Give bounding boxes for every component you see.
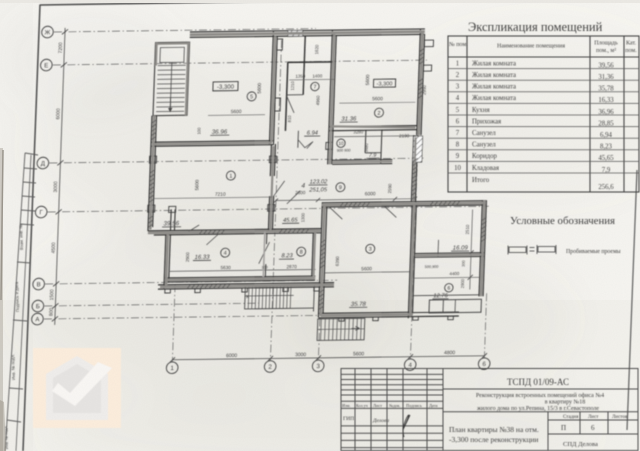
kitchen-room1 wall line2 [151,145,274,147]
dim tick [52,316,58,321]
wall hatch [320,289,325,292]
stair tread [157,78,185,80]
upper right wall inner [421,34,425,135]
entrance tread [332,319,335,341]
wall core [190,32,425,35]
room 8 number [297,247,306,256]
stair K tread [258,286,261,309]
tick [393,197,397,201]
room3 left wall inner [323,206,327,313]
stair tread [157,96,185,98]
rooms48 dim line [169,269,316,271]
wall hatch [420,57,425,60]
axis 6 line [484,293,486,358]
stairs K outline [245,285,315,308]
stairwell walls [153,42,190,115]
dim tick [316,355,321,360]
stair tread [157,92,185,94]
room 10 number [337,139,346,148]
kitchen-room1 wall line1 [151,141,274,143]
entrance tread [356,318,359,340]
room10 dim line [334,136,416,137]
room7 shaft line [303,36,305,95]
room1-corridor wall outer upper [270,144,271,176]
stair tread [158,64,186,66]
wall hatch [413,175,418,178]
south wall pilaster [242,288,248,292]
wall hatch [418,95,423,98]
entrance zigzag [298,140,313,149]
corridor dim line [276,199,415,201]
kitchen dim line [208,114,265,117]
stair K tread [268,286,271,309]
wall core [156,42,190,44]
south wall pilaster [195,289,201,293]
door swing room4 [206,234,218,245]
wall hatch [279,230,282,234]
room2 dim line [339,101,415,104]
wall core [322,203,486,205]
room 5 number [247,92,256,101]
wall core [332,161,392,164]
dim tick [56,209,62,214]
underline 8.23 [279,258,294,260]
wall hatch [321,239,326,242]
room8 right wall [312,233,314,277]
pilaster right2 [423,65,431,71]
porch divider [442,300,444,313]
wall core [166,234,168,286]
label -3,300 kitchen [213,82,238,91]
wall core [270,146,273,230]
wall hatch [152,128,157,131]
wall hatch [413,167,418,170]
wall hatch [305,229,308,233]
room7 inner line [287,94,304,96]
wall hatch [321,256,326,259]
wall hatch [412,192,417,195]
room4-8 partition lower [264,264,266,277]
room 7 number [311,82,320,91]
wall hatch [349,203,352,207]
wall hatch [434,202,437,206]
room3 bottom wall line2 [318,316,459,318]
wall hatch [419,78,424,81]
wall hatch [452,201,455,205]
room1-corridor wall inner lower [272,196,273,232]
wall hatch [413,171,418,174]
wall hatch [321,248,326,251]
wall hatch [208,230,211,234]
wall hatch [212,230,215,234]
room7 door swing [286,96,295,113]
room7 left partition [285,62,287,131]
wall hatch [222,284,225,288]
stair arrow head [168,108,173,113]
vert dim line right section [470,209,473,289]
stair K side [312,308,314,311]
south outer wall line1 [158,283,334,285]
wall hatch [216,230,219,234]
wall core [321,204,325,315]
room3 left wall outer [318,202,322,317]
right outer wall line2 [483,200,486,296]
wall hatch [203,231,206,235]
wall hatch [150,174,155,177]
room1 bottom wall line1 [148,229,321,231]
underline 45.65 [282,222,299,224]
underline 36.96 [210,134,229,136]
wall hatch [150,182,155,185]
wall core [148,231,321,233]
stair K tread [279,286,282,309]
wall core [413,137,415,201]
wall hatch [152,120,157,123]
dim line 4400 [414,276,479,279]
wall hatch [413,162,418,165]
wall hatch [283,229,286,233]
bottom wall pilaster [448,316,454,320]
stair tread [156,110,184,112]
wall hatch [412,196,417,199]
wall core [331,125,416,128]
wall hatch [481,238,486,241]
bottom wall pilaster [413,317,419,321]
wall hatch [419,82,424,85]
room3 dim line [324,272,409,273]
wall hatch [187,285,190,289]
south wall pilaster [314,287,320,291]
tick [274,198,278,202]
wall core [263,232,265,278]
block48 bottom wall line2 [164,280,315,282]
underline 35.78 [349,306,367,308]
room10 bottom wall line1 [332,159,392,162]
wall core [155,43,158,66]
wall tie at axis Г [148,205,155,212]
axis 2 line [270,40,281,361]
entrance tread [348,319,351,341]
stair tread [156,101,184,103]
stair K tread [272,286,275,309]
room1 bottom wall line2 [154,233,321,235]
entrance tread [352,318,355,340]
entrance tread [328,319,331,341]
room7 top partition [288,61,334,64]
underline 16.33 [193,259,211,261]
stair tread [157,87,185,89]
room3 bottom wall line1 [319,312,414,313]
wall tie room10 left [326,142,333,149]
axis Е line [53,60,427,65]
wall hatch [199,231,202,235]
wall hatch [151,136,156,139]
axis 4 line [410,38,421,359]
wall core [314,230,316,276]
room10 niche top [365,152,381,154]
entrance stairs [317,318,365,340]
wall hatch [420,48,425,51]
axis Ж circle [41,26,53,38]
wall core [419,31,423,135]
room10 partition B [381,130,382,164]
label 123,02/251,05 [301,179,328,193]
axis Д circle [37,157,49,169]
underline 16.09 [451,250,469,252]
axis Г line [48,206,489,212]
room10 left wall outer [328,130,329,164]
dim tick [268,356,273,361]
wall core [160,285,334,287]
right wall mid outer [411,135,413,201]
tick [316,198,320,202]
tick [468,275,473,280]
wall core [186,42,189,115]
hatched wall pier [413,136,423,162]
wall hatch [209,284,212,288]
wall hatch [191,285,194,289]
wall hatch [418,91,423,94]
wall hatch [292,229,295,233]
stair K tread [247,286,250,309]
wall hatch [419,87,424,90]
stair K tread [275,286,278,309]
bottom wall pilaster [373,317,379,321]
south wall pilaster [283,287,289,291]
stair stringer [170,62,172,111]
wall hatch [150,191,155,194]
wall hatch [149,199,154,202]
wall hatch [218,284,221,288]
wall hatch [357,203,360,207]
wall hatch [321,252,326,255]
stair tread [156,106,184,108]
stair tread [158,69,186,71]
wall hatch [420,52,425,55]
wall hatch [456,201,459,205]
wall hatch [482,226,487,229]
label -3,300 room2 [373,79,395,88]
axis Е circle [40,59,52,71]
room3 door swing [384,206,396,217]
axis 6 circle [478,358,490,370]
stair K tread [254,286,257,309]
right outer wall line1 [479,200,482,296]
wall hatch [149,216,154,219]
wall core [166,278,315,280]
block48 left wall inner [169,234,171,282]
39.56 step wall line2 [173,209,176,230]
room 1 number [226,171,235,180]
underline 7.9 [366,157,379,159]
top wall outer line [190,29,425,32]
wall hatch [319,298,324,301]
axis 1 circle [166,362,178,374]
wall hatch [227,284,230,288]
room10 left wall inner [332,130,333,164]
room7-room2 wall inner [333,35,336,130]
dim tick [62,29,68,34]
wall hatch [196,285,199,289]
room10 bottom wall line2 [332,163,392,166]
stair K tread [282,286,285,309]
axis 2 circle [264,361,276,373]
entrance stairs rail [317,328,364,331]
axis 3 circle [312,360,324,372]
wall hatch [150,170,155,173]
stair K tread [261,286,264,309]
wall core [481,200,484,296]
right wall mid inner [415,135,417,201]
room10 partition A [364,130,367,153]
room3 top wall line1 [322,201,486,203]
dim tick [170,357,175,362]
wall hatch [301,229,304,233]
wall hatch [200,285,203,289]
room7-room2 wall outer [329,30,333,130]
axis В line [45,280,337,284]
left wall outer [148,116,152,231]
wall core [153,143,272,145]
left dimension line [55,28,65,325]
wall core [321,314,413,315]
entrance tread [336,319,339,341]
wall hatch [447,202,450,206]
axis Д line [49,158,423,163]
wall hatch [413,158,418,161]
kitchen right wall outer [269,31,273,144]
dim tick [61,62,67,67]
stair K tread [251,286,254,309]
lobby line [297,131,300,148]
hatched wall segment [288,30,303,36]
signature [403,415,410,437]
wall tie axis Г right [268,205,275,212]
wall core [272,36,276,142]
bottom dimension line [172,356,484,360]
wall hatch [419,61,424,64]
stair tread [157,83,185,85]
room 4 number [221,248,230,257]
wall hatch [482,217,487,220]
south wall pilaster [165,289,171,293]
wall hatch [439,202,442,206]
wall tie axis Д right [269,156,276,163]
wall core [410,205,414,316]
room7 dim line [289,78,334,81]
axis 1 line [172,284,175,362]
39.56 step wall line1 [169,209,172,230]
underline 12.76 [432,298,448,300]
wall hatch [340,203,343,207]
pilaster right1 [424,40,433,47]
room 9 number [336,183,345,192]
wall core [330,130,331,164]
stair tread [157,73,185,75]
room8 door swing [259,242,270,264]
wall hatch [412,179,417,182]
entrance tread [344,319,347,341]
dim tick [408,354,413,359]
stair arrow shaft [169,97,171,110]
axis Г circle [35,206,47,218]
wall hatch [482,230,487,233]
porch divider2 [454,300,456,313]
bottom wall pilaster [339,317,345,321]
tick [468,250,473,255]
room16 partition line2 [415,255,484,258]
wall hatch [288,229,291,233]
wall core [331,32,334,130]
stair K tread [286,286,289,309]
room1 door swing [274,181,285,196]
door room16 [437,240,440,257]
wall hatch [443,202,446,206]
top frame line [40,0,640,5]
dim tick [482,353,487,358]
room1 dim line [154,197,272,199]
tick [413,197,417,201]
block48 left wall outer [164,234,166,288]
entrance tread [320,319,323,341]
room2-room10 wall line1 [329,126,418,127]
wall hatch [482,221,487,224]
stair K tread [289,286,292,309]
wall under porch [413,311,459,314]
room 6 number [445,283,454,292]
room3 top wall line2 [322,205,486,207]
south outer wall line2 [158,287,334,289]
wall hatch [150,186,155,189]
room2-room10 wall line2 [329,130,418,131]
room6 lower line [414,294,479,297]
entrance tread [360,318,363,340]
axis Б circle [32,300,44,312]
axis Ж line [54,29,316,32]
stair K tread [265,286,268,309]
wall hatch [152,124,157,127]
wall tie at axis Д [149,156,156,163]
wall hatch [149,195,154,198]
axis 3 line [318,231,322,360]
left wall inner [153,116,157,228]
axis А circle [31,313,43,325]
room3 right wall inner [412,205,416,314]
wall hatch [149,220,154,223]
dim tick [52,303,58,308]
axis А line [44,315,341,319]
dim tick [57,160,63,165]
wall hatch [150,178,155,181]
wall hatch [296,229,299,233]
room1-corridor wall outer lower [268,196,269,232]
room 3 number [366,244,375,253]
room3 door swing2 [329,207,342,219]
porch outline [429,299,481,313]
top wall core dashes [196,32,420,35]
wall hatch [366,203,369,207]
axis В circle [33,278,45,290]
wall core [150,116,154,230]
room3 right wall outer [408,205,412,318]
block48 bottom wall line1 [164,276,315,278]
entrance tread [340,319,343,341]
left frame line [23,5,40,451]
leader line 123,02 [287,191,300,204]
upper right wall outer [417,29,421,135]
stair K rail [245,294,294,297]
underline 6.94 [304,135,320,137]
